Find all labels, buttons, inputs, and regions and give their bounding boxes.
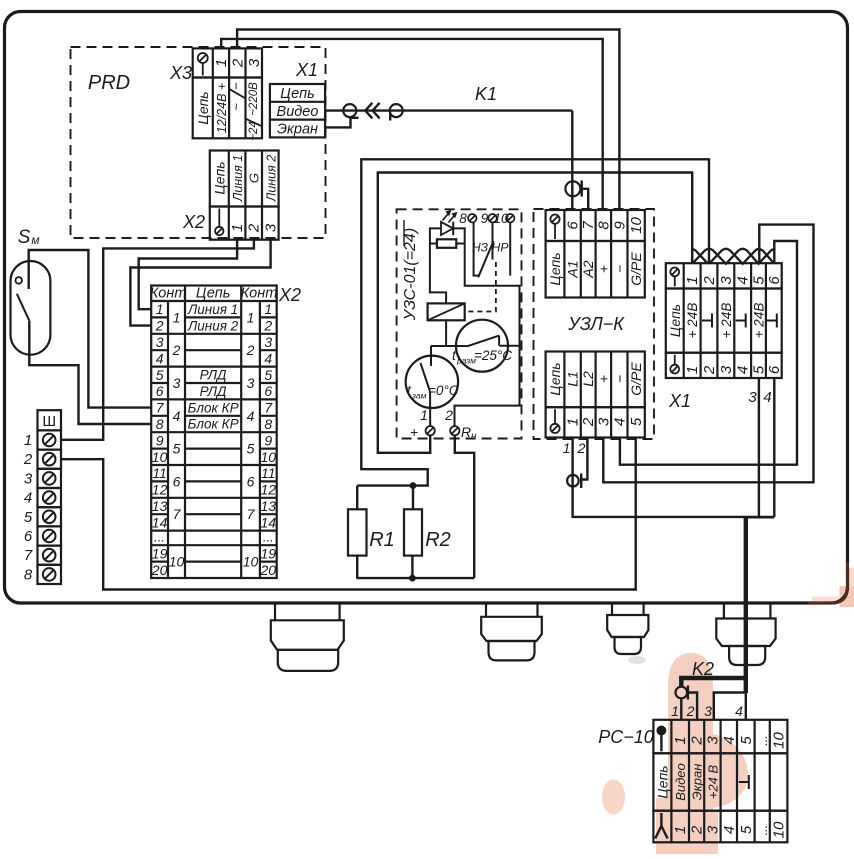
svg-text:Блок КР: Блок КР [188,400,239,415]
PC-10 female pin symbol [655,813,667,839]
UZL-K dashed box [534,209,655,439]
svg-text:10: 10 [771,732,788,749]
relay coil K [428,303,465,320]
connector X3 cell 3 diagonal [246,119,262,126]
wire X1 bottom pin5 down [758,378,760,517]
svg-text:2: 2 [577,440,586,456]
svg-text:K2: K2 [692,659,714,679]
svg-text:=0°C: =0°C [428,383,459,398]
wire UZL-K pin4 to X1 pin6 [620,241,797,465]
connector X2 pin symbol [215,227,223,235]
svg-text:2: 2 [263,318,272,334]
svg-text:6: 6 [565,221,582,230]
svg-text:2: 2 [155,318,164,334]
svg-text:7: 7 [24,547,33,564]
svg-text:+: + [595,375,611,383]
svg-text:Экран: Экран [277,122,318,138]
reed switch Sm capsule [11,261,51,355]
wire pin10 stub [509,222,511,275]
svg-text:Цепь: Цепь [211,161,227,194]
svg-text:L1: L1 [565,371,581,387]
svg-text:3: 3 [264,334,272,350]
svg-text:5: 5 [173,441,181,457]
PRD unit dashed box [71,47,326,238]
svg-text:РЛД: РЛД [200,384,227,399]
svg-text:3: 3 [262,223,279,232]
wire UZS pin2 to R network bottom [455,435,474,578]
svg-text:3: 3 [704,703,712,719]
connector X3 cell 2 diagonal [230,89,245,98]
ground glyph [767,320,777,322]
svg-text:3: 3 [173,375,181,391]
svg-text:Цепь: Цепь [547,252,563,285]
UZL-K upper table [546,210,645,298]
svg-text:+24 В: +24 В [705,765,720,800]
wire K1 socket to UZL-K pin7 [582,189,589,210]
svg-text:5: 5 [24,509,33,526]
svg-text:НР: НР [492,241,509,255]
label t razm [452,347,512,366]
LED arrows [443,210,458,222]
svg-text:2: 2 [229,58,246,68]
wire R2 top lead [412,486,414,510]
svg-text:X1: X1 [295,60,318,80]
svg-text:4: 4 [173,408,181,424]
connector X3 pin symbol [198,53,208,63]
wire R1 top lead [356,486,358,510]
svg-text:...: ... [755,735,770,746]
terminal strip Sh cells [38,430,62,584]
svg-text:1: 1 [156,301,164,317]
wire pin9 stub [492,222,494,259]
PC-10 male pin symbol [657,726,666,752]
svg-text:7: 7 [264,400,273,416]
svg-text:3: 3 [704,825,721,834]
thermostat t razm 25C [456,320,508,372]
svg-text:13: 13 [261,498,277,514]
wire K2 core4 to PC-10 pin5 [745,693,747,720]
cable K2 thick run [681,517,746,693]
svg-text:Блок КР: Блок КР [188,417,239,432]
svg-text:+: + [410,424,418,440]
wire LED loop top [430,228,441,243]
svg-text:12/24В +: 12/24В + [215,83,229,133]
svg-text:1: 1 [24,432,32,449]
cable gland 4 [716,603,775,665]
connector symbol K1 at UZL [565,181,580,196]
svg-text:3: 3 [595,417,612,426]
resistor R in UZS [437,239,456,248]
connector X1 right table [666,263,782,378]
svg-text:5: 5 [738,825,755,834]
svg-text:4: 4 [247,408,255,424]
svg-text:12: 12 [152,482,168,498]
svg-text:2: 2 [246,342,255,358]
watermark [602,568,854,854]
svg-text:2: 2 [172,342,181,358]
connector PC-10 table [653,720,787,843]
svg-text:Линия 2: Линия 2 [187,318,239,333]
wire UZS pin1 to X1 pin1 [378,173,692,453]
svg-text:20: 20 [260,562,277,578]
svg-text:7: 7 [173,506,182,522]
connector X3 table [193,48,262,138]
svg-text:2: 2 [701,276,718,286]
svg-text:10: 10 [628,217,645,234]
svg-text:4: 4 [24,490,32,507]
cable gland 1 [271,603,344,671]
svg-text:1: 1 [672,736,689,744]
svg-text:3: 3 [718,365,735,374]
svg-text:...: ... [755,825,770,836]
svg-text:13: 13 [152,498,168,514]
enclosure corner tint [808,562,848,603]
svg-text:5: 5 [738,736,755,745]
svg-text:1: 1 [565,418,582,426]
svg-text:4: 4 [611,418,628,426]
terminal table X2 [151,286,277,579]
svg-text:+ 24В: + 24В [752,303,767,339]
svg-text:4: 4 [735,703,743,719]
svg-text:5: 5 [264,367,272,383]
svg-text:8: 8 [595,221,612,230]
mechanical link dashed [465,262,496,312]
svg-text:2: 2 [246,223,263,233]
wire X2 pin3 to terminal X2 pin2 [130,240,270,326]
twisted pair braid above X1 [692,249,774,264]
svg-text:1: 1 [173,309,181,325]
svg-text:2: 2 [689,736,706,746]
connector X2 table [210,151,279,240]
svg-text:3: 3 [748,389,757,406]
svg-text:3: 3 [704,736,721,745]
svg-text:10: 10 [152,449,168,465]
svg-text:14: 14 [152,514,168,530]
svg-text:X1: X1 [668,391,691,411]
svg-text:R: R [461,424,471,440]
svg-text:4: 4 [721,736,738,744]
svg-text:+: + [595,265,611,273]
svg-text:1: 1 [264,301,272,317]
svg-text:12: 12 [261,482,277,498]
svg-text:7: 7 [156,400,165,416]
svg-text:4: 4 [264,350,272,366]
svg-text:1: 1 [684,276,701,284]
svg-text:9: 9 [264,432,272,448]
wire Video to K1 [325,109,572,111]
svg-text:2: 2 [686,703,695,719]
svg-text:3: 3 [246,58,263,67]
svg-text:8: 8 [459,211,467,226]
svg-text:6: 6 [766,276,783,285]
label t zam [407,382,459,401]
cable K2 junction bar [744,516,774,519]
wire resistor right lead [456,243,464,245]
svg-text:K1: K1 [475,84,497,104]
svg-text:Экран: Экран [690,764,705,801]
svg-text:1: 1 [247,309,255,325]
svg-text:−: − [611,375,627,383]
wire K2 core3 to PC-10 pin3 [714,693,746,720]
svg-text:4: 4 [763,389,771,406]
svg-text:Цепь: Цепь [667,304,683,337]
connector X1 upper pin symbol [670,268,679,277]
svg-text:10: 10 [261,449,277,465]
cable gland 2 [481,603,542,660]
svg-text:6: 6 [247,473,255,489]
svg-text:1: 1 [563,440,571,456]
wire left node down to relay [430,244,446,304]
svg-text:−: − [611,265,627,273]
svg-text:5: 5 [247,441,255,457]
svg-text:1: 1 [229,224,246,232]
connector symbol K2 plug [676,687,688,699]
svg-text:G/PE: G/PE [628,252,644,286]
wire relay to node [431,320,467,366]
svg-text:н: н [471,431,477,442]
svg-text:5: 5 [628,417,645,426]
svg-text:2: 2 [444,407,453,423]
cable gland 3 [607,603,648,654]
svg-text:1: 1 [672,826,689,834]
UZL-K lower table [546,352,645,438]
svg-text:РС−10: РС−10 [598,727,654,747]
svg-text:S: S [18,227,31,248]
svg-text:~24: ~24 [248,121,260,141]
svg-text:3: 3 [24,470,33,487]
wire X2 pin1 to terminal X2 pin1 [139,240,237,310]
svg-text:19: 19 [152,545,168,561]
svg-text:Цепь: Цепь [654,765,670,798]
UZS pin 2 [444,407,477,442]
reed switch Sm contact circle [15,277,22,284]
terminal table X2 pair numbers [169,309,259,569]
wire K1 down to UZL-K pin6 [571,111,573,210]
UZL-K upper pin symbol [550,215,559,224]
svg-text:1: 1 [420,407,428,423]
svg-text:19: 19 [261,545,277,561]
svg-text:м: м [31,233,39,247]
svg-text:8: 8 [24,566,33,583]
enclosure box [5,12,848,604]
svg-text:X2: X2 [278,285,301,305]
PC-10 ground glyph [739,781,749,783]
svg-text:8: 8 [156,416,164,432]
svg-text:А1: А1 [565,260,581,278]
svg-text:11: 11 [261,465,276,481]
wire thermostat1 to right node [499,345,519,347]
wire LED cathode to node [453,228,465,243]
svg-text:1: 1 [684,366,701,374]
svg-text:3: 3 [718,276,735,285]
node dot R bottom [409,575,415,581]
wire X2 pin2 G to Sh terminal 1 [61,240,254,440]
svg-text:6: 6 [766,365,783,374]
wire Sm bottom to terminal X2 pin8 [29,321,151,424]
svg-text:Конт: Конт [150,286,187,302]
svg-text:Цепь: Цепь [547,362,563,395]
svg-text:10: 10 [771,821,788,838]
svg-text:3: 3 [247,375,255,391]
svg-text:УЗЛ−К: УЗЛ−К [567,314,625,334]
svg-text:Линия 1: Линия 1 [187,302,238,317]
wire X1 bottom pin6 down [773,378,775,517]
svg-text:−: − [229,82,244,90]
svg-text:1: 1 [671,703,679,719]
terminal strip Sh screws [43,434,56,581]
LED VD1 [441,222,453,236]
wire pin8 stub [474,222,479,275]
svg-text:~220В: ~220В [248,82,260,116]
svg-text:4: 4 [156,350,164,366]
svg-text:Видео: Видео [277,104,319,120]
svg-text:Линия 1: Линия 1 [231,155,245,202]
svg-text:6: 6 [24,528,33,545]
connector symbol K1 plug [343,104,356,117]
svg-text:4: 4 [735,366,752,374]
UZS-01 dashed box [397,209,522,438]
svg-text:4: 4 [735,276,752,284]
terminal table X2 contact numbers [151,301,276,578]
svg-text:9: 9 [611,221,628,230]
terminal table X2 circuit names [187,302,239,432]
svg-text:9: 9 [156,432,164,448]
UZL-K lower pin symbol [550,424,559,433]
svg-text:R1: R1 [369,529,395,551]
svg-text:А2: А2 [580,260,596,278]
svg-text:7: 7 [247,506,256,522]
svg-text:X2: X2 [182,212,205,232]
wire X3 pin1 to UZL-K pin8 [221,39,603,210]
wire R network to X1 pin2 [357,159,709,485]
svg-text:Цепь: Цепь [196,286,231,302]
wire Sh terminal2 to UZL-K pin5 [61,438,636,590]
svg-text:20: 20 [151,562,168,578]
svg-text:G: G [247,173,262,183]
svg-text:11: 11 [152,465,167,481]
svg-text:8: 8 [264,416,272,432]
svg-text:4: 4 [721,826,738,834]
node dot R top [410,482,416,488]
wire UZL-K pin1 to cable [573,438,744,517]
wire Sm top to terminal X2 pin7 [29,250,152,408]
svg-text:Цепь: Цепь [280,86,315,102]
svg-text:Цепь: Цепь [195,91,211,124]
svg-text:2: 2 [23,451,33,468]
UZS pin 1 [410,407,435,440]
svg-text:+ 24В: + 24В [719,303,734,339]
terminal strip Sh numbers [23,432,33,583]
thermostat t zam 0C [406,356,458,408]
wire K2 core1 to PC-10 pin1 [680,698,682,720]
connector X1 (video) table [270,84,325,137]
wire UZL-K pin2 to connector bar [581,438,587,480]
wire X3 pin2 to UZL-K pin9 [237,30,619,211]
svg-text:...: ... [263,530,274,545]
svg-text:10: 10 [243,554,259,570]
svg-text:6: 6 [264,383,272,399]
svg-text:X3: X3 [169,63,192,83]
svg-text:14: 14 [261,514,277,530]
svg-text:1: 1 [213,59,230,67]
wire resistor left lead [430,243,437,245]
svg-text:5: 5 [156,367,164,383]
svg-text:3: 3 [156,334,164,350]
svg-text:НЗ: НЗ [472,241,489,255]
ground glyph [702,320,712,322]
svg-text:2: 2 [701,365,718,375]
svg-text:...: ... [154,530,165,545]
svg-text:L2: L2 [580,371,596,387]
svg-text:G/PE: G/PE [628,362,644,396]
svg-text:6: 6 [156,383,164,399]
svg-text:=25°C: =25°C [474,348,512,363]
svg-text:РЛД: РЛД [200,368,227,383]
resistor R2 [404,509,422,555]
wire right node down right side [455,244,520,427]
svg-text:~: ~ [229,103,244,111]
changeover blade NZ/NR [478,241,493,277]
svg-text:зам: зам [411,391,427,401]
connector symbol K1 jack [390,104,403,117]
K1 chevrons [365,103,372,119]
reed switch Sm label [18,227,40,248]
svg-text:10: 10 [169,554,185,570]
svg-text:Конт: Конт [241,286,278,302]
svg-text:+ 24В: + 24В [685,303,700,339]
svg-text:6: 6 [173,473,181,489]
svg-text:2: 2 [689,825,706,835]
svg-text:PRD: PRD [88,72,130,94]
wire R bottom bus [357,556,475,579]
wire thermostat2 to pin1 [429,406,431,426]
wire Ekran to K1 socket [325,118,350,128]
svg-text:Ш: Ш [42,413,56,430]
resistor R1 [348,509,367,555]
wire K2 core2 to PC-10 pin2 [688,693,697,720]
svg-text:R2: R2 [425,529,451,551]
reed switch Sm blade [17,294,29,321]
svg-text:Видео: Видео [673,763,688,801]
connector symbol at UZL-K pin1 [567,475,579,487]
svg-text:Линия 2: Линия 2 [264,155,278,203]
terminal strip Sh header [38,410,62,430]
connector X1 lower pin symbol [670,365,679,374]
ground glyph [736,320,746,322]
wire UZL-K pin3 to X1 pin5 [603,225,813,483]
